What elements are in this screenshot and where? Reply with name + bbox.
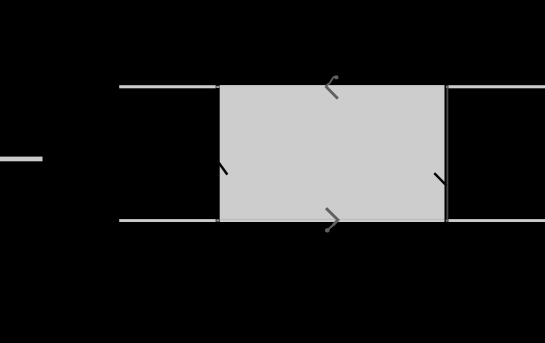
arrowhead tick at right edge [434,173,446,185]
wire top (left lead to right lead through box top edge) [119,85,545,88]
arrowhead tick at left edge [218,161,228,174]
box right border gap [445,84,449,223]
device box body (gray fill) [220,85,445,219]
radiation arrow (bottom, squiggle crossing bottom edge) [325,208,338,232]
wire bottom (left lead to right lead through box bottom edge) [119,219,545,222]
box left border gap [216,84,220,223]
node stub at left image edge [0,157,43,162]
radiation arrow (top, squiggle crossing top edge) [326,75,339,98]
